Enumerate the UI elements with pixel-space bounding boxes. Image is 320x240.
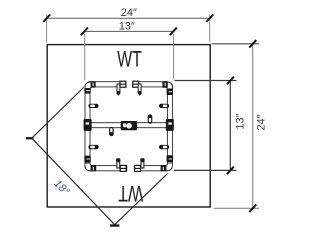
tick 24in right bottom [249, 205, 256, 213]
svg-text:WT: WT [118, 181, 143, 206]
top gap flange left slot [120, 83, 126, 85]
bolt middle pipe down slot [110, 128, 112, 132]
left pipe [85, 85, 90, 168]
bottom gap flange right slot [135, 167, 141, 169]
diamond edge lower-right [115, 170, 172, 225]
elbow bottom-right [165, 163, 173, 171]
svg-text:13″: 13″ [235, 113, 247, 129]
bolt right pipe lower slot [163, 146, 167, 148]
collar BL horizontal [91, 165, 97, 171]
center swivel block [121, 121, 137, 130]
elbow top-left [85, 82, 93, 90]
tick 24in top right [206, 14, 213, 22]
top pipe left segment [89, 82, 126, 87]
bottom gap bolt right cap [140, 158, 144, 162]
cross junction right [166, 119, 174, 131]
dim ext 13in right-bottom [173, 169, 237, 171]
tick 24in top left [43, 14, 50, 22]
right pipe [167, 85, 172, 164]
top gap flange right [133, 81, 139, 87]
dim line 24in right [252, 44, 254, 209]
collar BR horizontal slit [163, 167, 164, 170]
bolt middle pipe up slot [149, 118, 151, 122]
cross junction right slot [168, 122, 171, 124]
top gap flange right slot [133, 83, 139, 85]
tick 13in right top [227, 77, 234, 85]
dim ext 13in top-left [84, 34, 86, 80]
tick 13in right bottom [227, 167, 234, 175]
bottom gap flange left slot [120, 167, 126, 169]
collar BR vertical slit [169, 158, 172, 159]
elbow bottom-left [85, 163, 93, 171]
pipe frame detail (13in frame) [84, 81, 174, 174]
collar TL vertical slit [86, 90, 89, 91]
collar TR horizontal [162, 81, 167, 88]
top pipe right segment [133, 82, 167, 87]
tick 24in right top [249, 40, 256, 48]
bottom gap bolt left cap [116, 158, 120, 162]
collar BR vertical [167, 155, 173, 162]
middle pipe [89, 123, 169, 128]
bottom gap bolt left [117, 161, 120, 169]
collar BL vertical [84, 156, 90, 163]
bolt left pipe lower [88, 145, 98, 149]
diamond edge lower-left [32, 138, 115, 225]
collar TL horizontal [91, 81, 96, 87]
bottom gap flange right [135, 165, 141, 171]
svg-text:24″: 24″ [256, 114, 268, 130]
diamond left vertex tick [26, 137, 33, 139]
top gap flange left [120, 81, 126, 87]
dim line 13in right [229, 81, 231, 171]
top gap bolt left [117, 84, 120, 92]
top gap bolt left tip [117, 91, 121, 96]
dim ext top-right [209, 15, 211, 43]
dim line 13in top [84, 30, 173, 32]
collar TR vertical [167, 89, 173, 96]
svg-text:WT: WT [117, 47, 142, 72]
cross junction left [84, 119, 92, 131]
dim ext 24in right-bottom [214, 207, 259, 209]
tick 13in top left [81, 28, 88, 36]
collar TL vertical [84, 88, 90, 94]
bolt right pipe upper slot [163, 105, 167, 107]
dim ext 13in right-top [175, 80, 237, 82]
svg-text:24″: 24″ [121, 7, 137, 19]
collar BL horizontal slit [93, 167, 94, 170]
bottom pipe right segment [134, 166, 167, 171]
diamond edge upper-left [32, 86, 85, 138]
collar TR vertical slit [169, 91, 172, 92]
bottom gap bolt right [141, 161, 144, 169]
bottom gap flange left [120, 165, 126, 171]
bolt right pipe lower [159, 145, 169, 149]
dim ext top-left [46, 15, 48, 43]
svg-text:13″: 13″ [119, 20, 135, 32]
collar BL vertical slit [86, 158, 89, 159]
center swivel side slot left [123, 123, 126, 127]
center swivel circle [126, 123, 132, 129]
diamond bottom vertex tick [110, 224, 119, 226]
frame white mask [84, 81, 174, 174]
collar BR horizontal [161, 165, 167, 171]
collar TL horizontal slit [93, 83, 94, 87]
bolt left pipe upper slot [90, 105, 94, 107]
tick 13in top right [170, 28, 177, 36]
cross junction left slot [86, 122, 89, 124]
bolt middle pipe up [148, 114, 153, 123]
bottom pipe left segment [89, 166, 127, 171]
dim ext 13in top-right [173, 34, 175, 79]
outer square 24in [47, 45, 210, 207]
dim ext 24in right-top [212, 43, 260, 45]
bolt middle pipe down [109, 127, 114, 136]
elbow top-right [165, 82, 173, 90]
bolt left pipe lower slot [90, 146, 94, 148]
bolt left pipe upper [88, 104, 98, 108]
bolt right pipe upper [159, 104, 169, 108]
top gap bolt right tip [138, 91, 142, 96]
collar TR horizontal slit [165, 83, 166, 87]
dim line 24in top [47, 17, 210, 19]
top gap bolt right [138, 84, 141, 92]
